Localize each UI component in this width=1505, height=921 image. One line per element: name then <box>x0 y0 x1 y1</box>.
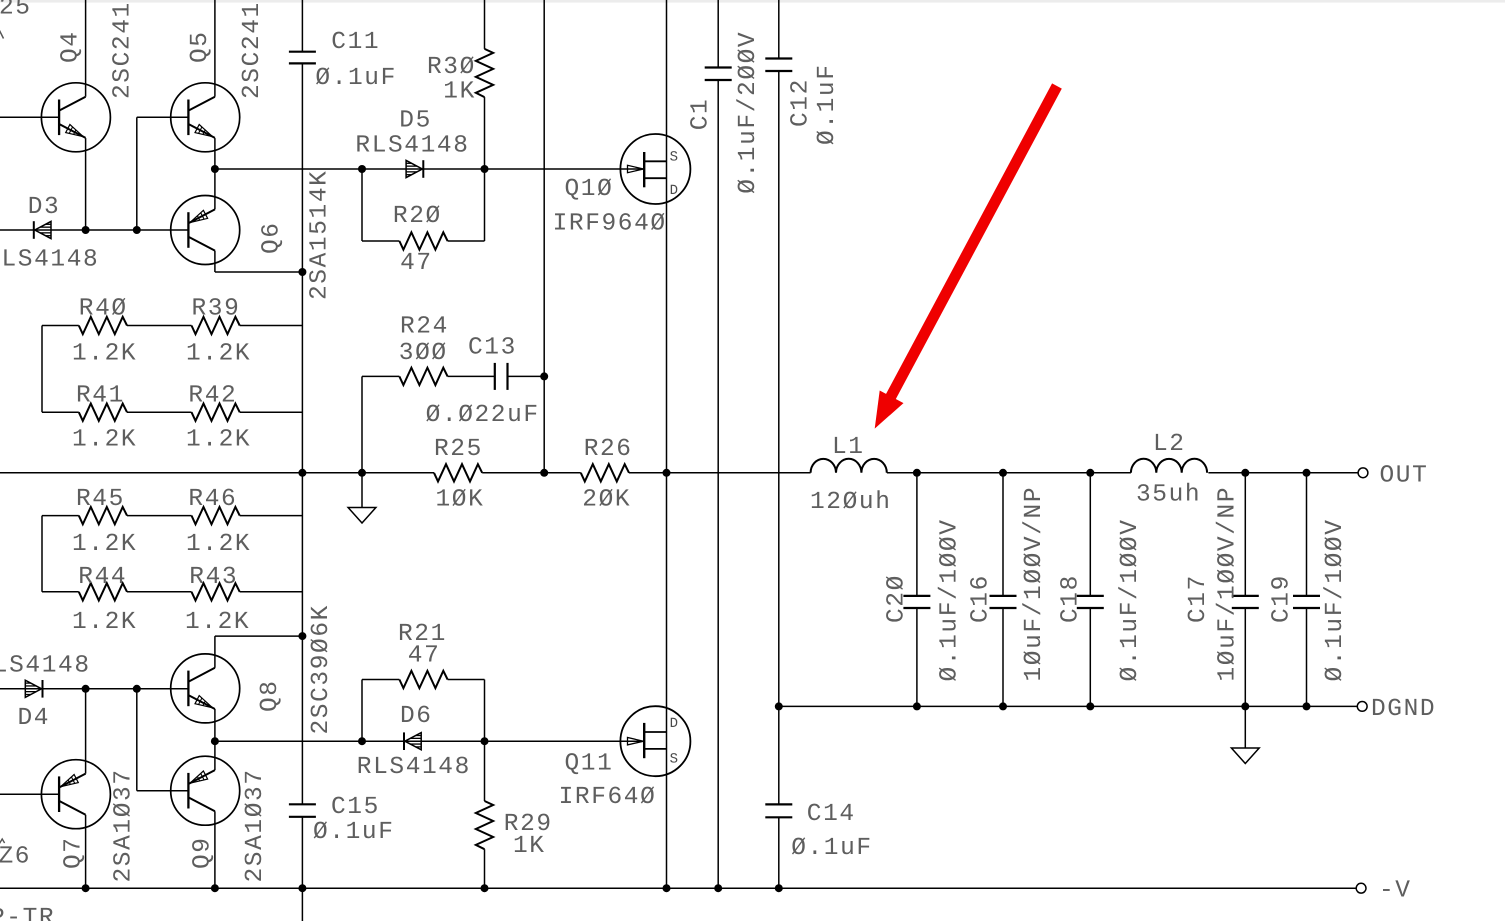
svg-text:R24: R24 <box>400 314 449 341</box>
junction Q8 collector / rail <box>298 632 306 640</box>
svg-text:D3: D3 <box>28 194 61 221</box>
junction R29 / -V rail <box>481 884 489 892</box>
wire Q4 base <box>0 116 59 118</box>
wire Q5 collector rail <box>214 0 216 97</box>
capacitor C15 <box>289 804 316 817</box>
inductor L1 <box>811 459 887 473</box>
wire C11 rail top <box>301 0 303 51</box>
capacitor C19 <box>1293 596 1320 608</box>
junction base jog / D3 <box>133 226 141 234</box>
wire main line R25-R26 <box>482 472 581 474</box>
wire C15 to bottom rail <box>301 818 303 889</box>
svg-text:C17: C17 <box>1185 574 1212 623</box>
svg-text:C14: C14 <box>807 801 856 828</box>
transistor Q9 <box>171 756 240 825</box>
svg-text:1.2K: 1.2K <box>72 531 137 558</box>
wire Q5 base <box>137 116 189 118</box>
svg-text:1ØuF/1ØØV/NP: 1ØuF/1ØØV/NP <box>1215 486 1242 682</box>
resistor R41 <box>79 404 127 421</box>
svg-text:1.2K: 1.2K <box>72 609 137 636</box>
junction R21 branch bottom <box>358 737 366 745</box>
wire R20 branch left <box>361 169 363 241</box>
junction R20 branch top <box>358 165 366 173</box>
capacitor C1 <box>705 68 732 81</box>
wire main line L2-OUT <box>1208 472 1358 474</box>
svg-text:RLS4148: RLS4148 <box>357 754 471 781</box>
svg-text:Ø.1uF/2ØØV: Ø.1uF/2ØØV <box>735 31 762 194</box>
wire R30 top lead <box>484 0 486 49</box>
svg-text:1ØK: 1ØK <box>436 487 485 514</box>
wire R41 left lead <box>42 411 79 413</box>
svg-text:RLS4148: RLS4148 <box>355 133 469 160</box>
wire rail below -V rail <box>301 888 303 921</box>
svg-text:Q11: Q11 <box>565 751 614 778</box>
wire C1 rail top <box>717 0 719 68</box>
svg-text:1ØuF/1ØØV/NP: 1ØuF/1ØØV/NP <box>1021 486 1048 682</box>
wire main line L1-L2 <box>887 472 1131 474</box>
wire C20 bottom lead <box>916 608 918 706</box>
svg-text:2SA1Ø37: 2SA1Ø37 <box>242 768 269 882</box>
capacitor C11 <box>289 52 316 64</box>
wire C12 rail top <box>778 0 780 59</box>
svg-text:R42: R42 <box>188 383 237 410</box>
svg-text:D6: D6 <box>400 703 433 730</box>
wire Q6 emitter to C11 rail <box>215 271 303 273</box>
resistor R42 <box>192 404 240 421</box>
svg-text:Ø.Ø22uF: Ø.Ø22uF <box>426 402 540 429</box>
svg-text:RLS4148: RLS4148 <box>0 247 99 274</box>
wire R21 left lead <box>362 679 399 681</box>
capacitor C20 <box>903 596 930 608</box>
svg-text:2SC2412: 2SC2412 <box>110 0 137 99</box>
ground (main line) <box>348 508 376 524</box>
svg-text:Q1Ø: Q1Ø <box>565 176 614 203</box>
svg-text:R45: R45 <box>76 486 125 513</box>
svg-text:D5: D5 <box>399 108 432 135</box>
diode D4 <box>25 680 42 698</box>
junction base jog / D4 <box>133 685 141 693</box>
wire C14 rail top <box>778 706 780 804</box>
wire C13 rail bottom <box>543 376 545 472</box>
svg-text:D4: D4 <box>18 705 51 732</box>
wire gate line Q11 (node G2) <box>215 740 644 742</box>
junction C14 / -V rail <box>775 884 783 892</box>
svg-text:2SC2412: 2SC2412 <box>239 0 266 99</box>
junction MOSFET rail / -V rail <box>663 884 671 892</box>
junction MOSFET rail / main <box>663 469 671 477</box>
svg-text:L2: L2 <box>1153 431 1186 458</box>
transistor Q5 <box>171 83 240 152</box>
wire R21 branch right <box>484 680 486 742</box>
wire base jog Q5/Q6 <box>136 117 138 230</box>
svg-text:Q8: Q8 <box>257 679 284 712</box>
svg-text:1.2K: 1.2K <box>186 427 251 454</box>
wire Q6 emitter top <box>214 169 216 209</box>
junction D6/R21/R29 <box>481 737 489 745</box>
transistor Q7 <box>41 760 110 829</box>
red annotation arrow <box>875 83 1062 428</box>
junction C17 / main <box>1241 469 1249 477</box>
svg-text:R3Ø: R3Ø <box>427 54 476 81</box>
svg-text:C13: C13 <box>468 335 517 362</box>
wire R29 bottom lead <box>484 849 486 888</box>
junction Q6 emitter / C11 rail <box>298 268 306 276</box>
resistor R20 <box>399 232 447 249</box>
junction C16 / DGND <box>999 702 1007 710</box>
capacitor C14 <box>765 804 792 817</box>
wire Q9 collector down <box>214 811 216 888</box>
cut glyph caret (left edge) <box>0 839 5 846</box>
resistor R24 <box>399 368 447 385</box>
wire C19 bottom lead <box>1306 608 1308 706</box>
svg-text:P-TR: P-TR <box>0 905 55 921</box>
svg-text:R46: R46 <box>188 486 237 513</box>
svg-text:Q9: Q9 <box>190 836 217 869</box>
resistor R46 <box>192 507 240 524</box>
svg-text:S: S <box>670 752 678 768</box>
wire C20 top lead <box>916 473 918 596</box>
wire C13 rail top <box>543 0 545 376</box>
svg-text:R39: R39 <box>192 296 241 323</box>
junction C1 / -V rail <box>714 884 722 892</box>
wire DGND rail <box>779 705 1358 707</box>
wire Q9 base <box>137 790 189 792</box>
resistor R43 <box>192 583 240 600</box>
wire C11 rail mid <box>301 272 303 636</box>
wire R40 left lead <box>42 325 79 327</box>
svg-text:Q4: Q4 <box>58 30 85 63</box>
capacitor C13 <box>495 363 508 390</box>
wire Q7 base <box>0 793 59 795</box>
svg-text:1K: 1K <box>443 79 476 106</box>
resistor R45 <box>79 507 127 524</box>
svg-text:R4Ø: R4Ø <box>79 296 128 323</box>
wire R20 branch right <box>484 169 486 241</box>
junction C13 / R24 <box>540 372 548 380</box>
ground (DGND) <box>1231 748 1259 764</box>
capacitor C17 <box>1232 596 1259 608</box>
svg-text:R2Ø: R2Ø <box>393 203 442 230</box>
terminal -V <box>1356 883 1366 893</box>
svg-text:2SA1Ø37: 2SA1Ø37 <box>111 768 138 882</box>
svg-text:C19: C19 <box>1269 574 1296 623</box>
svg-text:1.2K: 1.2K <box>185 609 250 636</box>
wire R24 left lead <box>362 375 399 377</box>
wire R21 branch left <box>361 680 363 742</box>
wire R43 right lead <box>240 591 303 593</box>
svg-text:Q6: Q6 <box>259 221 286 254</box>
junction C11 rail / main <box>298 469 306 477</box>
wire R20 right lead <box>448 240 485 242</box>
wire R39 right lead <box>240 325 303 327</box>
junction C18 / main <box>1086 469 1094 477</box>
svg-text:35uh: 35uh <box>1136 482 1201 509</box>
wire R45 left lead <box>42 515 79 517</box>
junction C12 rail / DGND <box>775 702 783 710</box>
wire Q8 collector link <box>215 635 303 637</box>
top window edge strip <box>0 0 1505 3</box>
svg-text:IRF964Ø: IRF964Ø <box>553 211 667 238</box>
resistor R39 <box>192 317 240 334</box>
svg-text:C1: C1 <box>688 98 715 131</box>
junction C18 / DGND <box>1086 702 1094 710</box>
svg-text:Ø.1uF: Ø.1uF <box>315 65 397 92</box>
wire -V bottom rail <box>0 887 1356 889</box>
wire R45-R46 link <box>127 515 192 517</box>
svg-text:Q5: Q5 <box>187 30 214 63</box>
svg-text:D: D <box>670 716 678 732</box>
wire gate line Q10 (node G1) <box>215 168 644 170</box>
diode D6 <box>404 732 421 750</box>
junction Q4 emitter / D3 <box>82 226 90 234</box>
junction C20 / main <box>913 469 921 477</box>
transistor Q6 <box>171 196 240 265</box>
diode D3 <box>34 221 51 239</box>
wire R44 left lead <box>42 591 79 593</box>
wire Q6 collector bottom <box>214 251 216 272</box>
wire C17 top lead <box>1244 473 1246 596</box>
wire Q7 collector down <box>85 815 87 888</box>
wire ground stem (DGND) <box>1244 706 1246 748</box>
terminal DGND <box>1357 702 1367 712</box>
inductor L2 <box>1131 459 1207 473</box>
svg-text:C12: C12 <box>788 78 815 127</box>
svg-text:-V: -V <box>1379 878 1412 905</box>
wire D4 / Q8 base line <box>0 688 188 690</box>
transistor Q8 <box>171 654 240 723</box>
resistor R40 <box>79 317 127 334</box>
wire C14 rail bottom <box>778 818 780 889</box>
svg-text:Ø.1uF/1ØØV: Ø.1uF/1ØØV <box>937 518 964 681</box>
wire R46 right lead <box>240 515 303 517</box>
wire R29 top lead <box>484 741 486 801</box>
svg-text:1.2K: 1.2K <box>186 531 251 558</box>
wire R21 right lead <box>448 679 485 681</box>
resistor R21 <box>399 671 447 688</box>
svg-text:OUT: OUT <box>1380 462 1429 489</box>
cut glyph stroke (left edge) <box>0 30 4 39</box>
transistor Q4 <box>41 83 110 152</box>
svg-text:Ø.1uF/1ØØV: Ø.1uF/1ØØV <box>1322 518 1349 681</box>
svg-text:47: 47 <box>400 250 433 277</box>
wire C13 right lead <box>508 375 545 377</box>
junction C13 rail / main <box>540 469 548 477</box>
terminal OUT <box>1358 468 1368 478</box>
resistor R26 <box>581 464 629 481</box>
svg-text:S: S <box>670 150 678 166</box>
junction Q5/Q6 emitters <box>211 165 219 173</box>
diode D5 <box>406 160 423 178</box>
wire C16 bottom lead <box>1002 608 1004 706</box>
junction D5/R30/R20 <box>481 165 489 173</box>
transistor Q11 <box>620 706 690 776</box>
capacitor C12 <box>765 59 792 72</box>
svg-text:R25: R25 <box>434 436 483 463</box>
wire C1 rail bottom <box>717 80 719 888</box>
wire C19 top lead <box>1306 473 1308 596</box>
wire R41-R42 link <box>127 411 192 413</box>
wire Q9 emitter up <box>214 741 216 770</box>
wire D3 / Q6 base line <box>0 229 188 231</box>
svg-text:12Øuh: 12Øuh <box>810 489 892 516</box>
wire C16 top lead <box>1002 473 1004 596</box>
junction C16 / main <box>999 469 1007 477</box>
svg-text:2SA1514K: 2SA1514K <box>307 170 334 300</box>
wire R24-C13 link <box>448 375 495 377</box>
svg-text:47: 47 <box>408 643 441 670</box>
svg-text:C15: C15 <box>331 794 380 821</box>
junction Q7 emitter / D4 <box>82 685 90 693</box>
wire Q4 collector rail <box>85 0 87 97</box>
svg-text:25: 25 <box>0 0 32 22</box>
svg-text:1K: 1K <box>513 833 546 860</box>
wire Q5 emitter <box>214 138 216 169</box>
svg-text:2SC39Ø6K: 2SC39Ø6K <box>308 604 335 734</box>
wire C15 rail <box>301 636 303 804</box>
svg-text:C16: C16 <box>967 574 994 623</box>
junction C19 / main <box>1303 469 1311 477</box>
wire R44-R43 link <box>127 591 192 593</box>
wire R20 left lead <box>362 240 399 242</box>
svg-text:1.2K: 1.2K <box>72 427 137 454</box>
wire R24 branch <box>361 376 363 472</box>
capacitor C18 <box>1077 596 1104 608</box>
wire Q7 emitter up <box>85 689 87 774</box>
wire base jog Q8/Q9 <box>136 689 138 791</box>
junction C20 / DGND <box>913 702 921 710</box>
svg-text:C18: C18 <box>1058 574 1085 623</box>
wire MOSFET rail <box>666 0 668 888</box>
wire Q8 emitter down <box>214 709 216 741</box>
wire C11 rail bottom <box>301 64 303 272</box>
svg-text:Ø.1uF: Ø.1uF <box>791 835 873 862</box>
svg-text:L1: L1 <box>832 434 865 461</box>
junction C15 / -V rail <box>298 884 306 892</box>
svg-text:R43: R43 <box>189 564 238 591</box>
svg-text:C2Ø: C2Ø <box>884 574 911 623</box>
wire R30 bottom lead <box>484 97 486 169</box>
svg-text:Ø.1uF/1ØØV: Ø.1uF/1ØØV <box>1117 518 1144 681</box>
wire C18 top lead <box>1089 473 1091 596</box>
svg-text:C11: C11 <box>331 29 380 56</box>
junction Q7 / -V rail <box>82 884 90 892</box>
svg-text:R26: R26 <box>584 436 633 463</box>
transistor Q10 <box>620 134 690 204</box>
svg-text:2ØK: 2ØK <box>582 487 631 514</box>
junction C19 / DGND <box>1303 702 1311 710</box>
svg-text:Q7: Q7 <box>61 836 88 869</box>
wire ground stem (main) <box>361 473 363 508</box>
resistor R29 <box>476 801 493 849</box>
wire ladder left top <box>41 326 43 413</box>
capacitor C16 <box>990 596 1017 608</box>
junction ground branch / main <box>358 469 366 477</box>
wire main line R26-L1 <box>629 472 811 474</box>
wire Q4 emitter <box>85 138 87 230</box>
svg-text:R44: R44 <box>78 564 127 591</box>
svg-text:Ø.1uF: Ø.1uF <box>313 819 395 846</box>
resistor R44 <box>79 583 127 600</box>
junction Q9 / -V rail <box>211 884 219 892</box>
svg-text:IRF64Ø: IRF64Ø <box>559 784 657 811</box>
svg-text:D: D <box>670 183 678 199</box>
resistor R25 <box>434 464 482 481</box>
svg-text:RLS4148: RLS4148 <box>0 653 91 680</box>
wire C17 bottom lead <box>1244 608 1246 706</box>
junction Q8/Q9 emitters <box>211 737 219 745</box>
wire ladder left bottom <box>41 516 43 592</box>
svg-text:1.2K: 1.2K <box>186 341 251 368</box>
svg-text:DGND: DGND <box>1371 696 1436 723</box>
wire main line left <box>0 472 434 474</box>
wire C18 bottom lead <box>1089 608 1091 706</box>
svg-text:Z6: Z6 <box>0 844 31 871</box>
svg-text:Ø.1uF: Ø.1uF <box>814 63 841 145</box>
svg-text:1.2K: 1.2K <box>72 341 137 368</box>
wire R40-R39 link <box>127 325 192 327</box>
svg-text:R41: R41 <box>76 383 125 410</box>
wire Q8 collector up <box>214 636 216 668</box>
resistor R30 <box>476 49 493 97</box>
junction C17 / DGND <box>1241 702 1249 710</box>
wire R42 right lead <box>240 411 303 413</box>
wire C12 rail mid <box>778 71 780 706</box>
svg-text:3ØØ: 3ØØ <box>399 340 448 367</box>
